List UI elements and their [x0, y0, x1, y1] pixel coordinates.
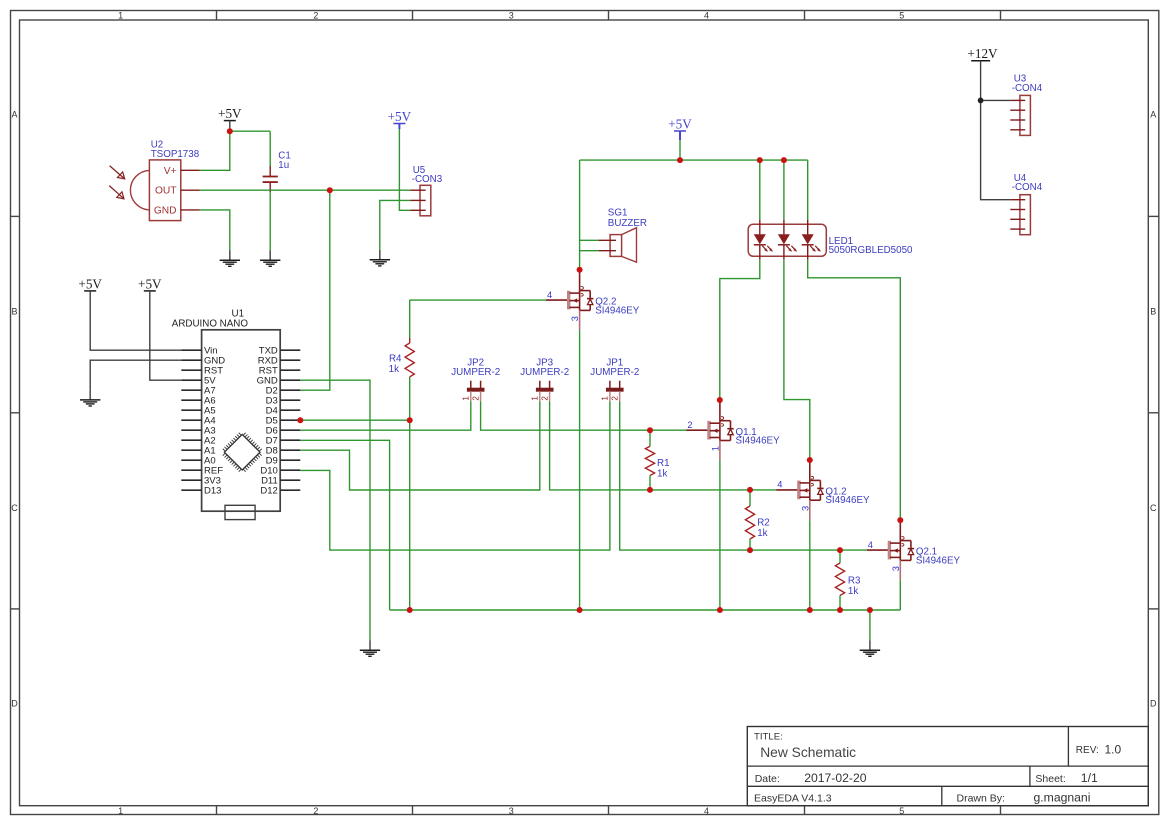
svg-text:D: D	[11, 699, 18, 709]
svg-text:g.magnani: g.magnani	[1034, 791, 1091, 805]
junction R1 top	[647, 427, 653, 433]
svg-text:+5V: +5V	[668, 116, 692, 131]
wire GND right	[300, 380, 370, 640]
capacitor C1	[263, 166, 278, 192]
wire buzzer pin2	[580, 250, 599, 252]
svg-text:1/1: 1/1	[1081, 771, 1098, 785]
junction +5V/V+/C1	[227, 128, 233, 134]
wire +12V down	[980, 61, 982, 101]
wire Q1.1 source to bus	[719, 461, 721, 611]
junction Q1.2 drain	[807, 457, 813, 463]
svg-text:C: C	[11, 503, 18, 513]
power flag +12V	[967, 46, 998, 61]
junction bus/ground	[867, 607, 873, 613]
svg-text:1u: 1u	[278, 160, 289, 171]
junction bus/R4	[407, 607, 413, 613]
wire U5.2 to gnd	[380, 200, 411, 249]
svg-text:4: 4	[777, 480, 782, 490]
svg-text:JUMPER-2: JUMPER-2	[590, 367, 639, 378]
svg-text:3: 3	[509, 11, 514, 21]
wire Q2.1 source	[899, 580, 901, 610]
ground (mid)	[360, 640, 380, 656]
junction D5/R4	[407, 417, 413, 423]
svg-text:A: A	[11, 110, 17, 120]
svg-text:R2: R2	[757, 518, 770, 529]
wire +5V to Vin	[90, 291, 181, 350]
svg-text:+5V: +5V	[138, 276, 162, 291]
wire D6 to JP2 pin1	[300, 401, 471, 430]
junction R2 top	[747, 487, 753, 493]
svg-text:1k: 1k	[848, 586, 858, 597]
svg-text:1: 1	[601, 396, 610, 401]
IC U1 (ARDUINO NANO)	[181, 330, 300, 511]
wire D5 net	[300, 419, 409, 421]
wire LED pin2 top	[783, 160, 785, 220]
wire R3 top stub	[839, 550, 841, 563]
svg-text:R4: R4	[389, 354, 402, 365]
buzzer SG1	[599, 228, 637, 263]
wire OUT net (U2 OUT to U5 pin1)	[200, 189, 411, 191]
ground (U5)	[370, 250, 390, 266]
svg-text:SI4946EY: SI4946EY	[916, 555, 961, 566]
ground (U1 left)	[80, 390, 100, 406]
svg-text:2: 2	[540, 396, 549, 401]
resistor R1	[645, 446, 654, 475]
transistor Q1.2 (SI4946EY)	[776, 460, 823, 520]
wire C1 top vertical	[269, 131, 271, 166]
svg-text:-CON4: -CON4	[1012, 83, 1043, 94]
svg-text:R3: R3	[848, 576, 861, 587]
ground (C1)	[260, 250, 280, 266]
junction R3 top	[837, 547, 843, 553]
U1 usb connector rect	[225, 505, 255, 519]
wire R2 bottom stub	[749, 539, 751, 550]
svg-text:B: B	[1150, 307, 1156, 317]
svg-text:1: 1	[531, 396, 540, 401]
wire R4 bottom	[409, 377, 411, 420]
junction +12V	[978, 98, 984, 104]
svg-text:1: 1	[462, 396, 471, 401]
svg-text:OUT: OUT	[155, 186, 177, 197]
wire LED1.1 to Q1.1	[720, 260, 760, 400]
resistor R3	[835, 563, 844, 596]
wire bus to ground (right)	[869, 610, 871, 640]
svg-text:JUMPER-2: JUMPER-2	[520, 367, 569, 378]
svg-text:1.0: 1.0	[1105, 743, 1122, 757]
svg-text:2: 2	[313, 11, 318, 21]
svg-text:REV:: REV:	[1076, 745, 1099, 756]
connector JP1 (JUMPER-2)	[607, 381, 624, 402]
ground (U2)	[220, 250, 240, 266]
IR arrows	[109, 166, 125, 199]
svg-text:1k: 1k	[757, 528, 767, 539]
svg-text:4: 4	[704, 11, 709, 21]
wire OUT to D2	[300, 190, 330, 390]
wire Q2.2 gate from R4	[410, 299, 546, 301]
svg-text:New Schematic: New Schematic	[760, 745, 856, 760]
connector JP2 (JUMPER-2)	[467, 381, 484, 402]
svg-text:2017-02-20: 2017-02-20	[804, 771, 867, 785]
wire R2 top stub	[749, 490, 751, 506]
wire +5V stub to junction	[229, 121, 231, 132]
wire bottom bus	[390, 609, 901, 611]
power flag +5V (U2/C1)	[218, 106, 242, 121]
svg-text:C: C	[1150, 503, 1157, 513]
svg-text:JUMPER-2: JUMPER-2	[451, 367, 500, 378]
power flag +5V (blue, rail)	[668, 116, 692, 140]
svg-text:D12: D12	[260, 486, 277, 497]
svg-text:1k: 1k	[389, 364, 399, 375]
transistor Q2.2 (SI4946EY)	[546, 270, 593, 331]
wire LED pin1 top	[759, 160, 761, 220]
svg-text:5050RGBLED5050: 5050RGBLED5050	[829, 245, 913, 256]
svg-text:D13: D13	[204, 486, 221, 497]
wire +5V to U2 V+	[200, 131, 230, 170]
svg-text:1: 1	[118, 11, 123, 21]
wire +5V to C1 top	[230, 130, 270, 132]
svg-text:4: 4	[704, 806, 709, 816]
transistor Q1.1 (SI4946EY)	[686, 400, 733, 461]
svg-text:-CON4: -CON4	[1012, 182, 1043, 193]
power flag +5V (blue, U5)	[388, 109, 412, 129]
svg-text:TITLE:: TITLE:	[754, 731, 783, 742]
wire +12V to U4.1	[981, 100, 1011, 199]
wire +5V to 5V pin	[150, 291, 182, 380]
wire +5V flag to rail	[679, 140, 681, 160]
junction Q2.2 drain	[577, 267, 583, 273]
wire R1 bottom stub	[649, 476, 651, 490]
svg-text:A: A	[1150, 110, 1156, 120]
svg-text:-CON3: -CON3	[412, 174, 443, 185]
svg-text:+12V: +12V	[967, 46, 998, 61]
U1 chip diamond symbol	[223, 433, 262, 472]
resistor R4	[405, 343, 414, 377]
wire U1 GND left	[90, 360, 181, 390]
transistor Q2.1 (SI4946EY)	[867, 520, 914, 580]
svg-text:EasyEDA V4.1.3: EasyEDA V4.1.3	[754, 793, 832, 805]
junction bus/Q2.2	[577, 607, 583, 613]
junction Q2.1 drain	[897, 517, 903, 523]
wire D8 to JP3 pin1	[300, 401, 540, 490]
svg-text:2: 2	[471, 396, 480, 401]
svg-text:1: 1	[118, 806, 123, 816]
wire D7 down	[300, 440, 389, 610]
svg-text:4: 4	[547, 290, 552, 300]
wire rail down to buzzer/Q2.2	[579, 160, 581, 270]
junction bus/Q1.2	[807, 607, 813, 613]
junction rail/LED1.1	[757, 157, 763, 163]
wire +5V rail	[580, 159, 808, 161]
svg-text:Date:: Date:	[755, 773, 780, 785]
svg-text:+5V: +5V	[388, 109, 412, 124]
wire U2 GND	[200, 210, 230, 250]
wire Q1.2 source to bus	[809, 520, 811, 610]
IC U2 (TSOP1738 IR receiver)	[130, 160, 199, 221]
wire buzzer pin1	[580, 239, 599, 241]
wire JP1.2 gate net	[620, 401, 867, 550]
ground (right)	[860, 640, 880, 656]
svg-text:3: 3	[509, 806, 514, 816]
svg-text:SI4946EY: SI4946EY	[825, 495, 870, 506]
svg-text:Drawn By:: Drawn By:	[957, 793, 1005, 805]
wire to U3.1	[981, 99, 1011, 101]
svg-text:1: 1	[710, 446, 720, 451]
svg-text:3: 3	[800, 506, 810, 511]
svg-text:SI4946EY: SI4946EY	[736, 435, 781, 446]
power flag +5V (5V pin)	[138, 276, 162, 291]
junction OUT/D2	[327, 187, 333, 193]
svg-text:2: 2	[687, 420, 692, 430]
junction Q1.1 drain	[717, 397, 723, 403]
svg-text:B: B	[11, 307, 17, 317]
svg-text:GND: GND	[154, 205, 177, 216]
wire JP2.2 gate net	[481, 401, 687, 430]
wire LED1.3 to Q2.1	[808, 260, 901, 520]
junction bus/R3	[837, 607, 843, 613]
svg-text:5: 5	[899, 11, 904, 21]
svg-text:4: 4	[868, 540, 873, 550]
wire D5/R4 to bus	[409, 420, 411, 610]
junction R1 bottom	[647, 487, 653, 493]
svg-text:2: 2	[611, 396, 620, 401]
connector U5 (-CON3)	[410, 185, 431, 216]
svg-text:Sheet:: Sheet:	[1035, 773, 1065, 785]
power flag +5V (Vin)	[78, 276, 102, 291]
title block	[747, 727, 1148, 806]
connector JP3 (JUMPER-2)	[536, 381, 553, 402]
LED LED1 (5050RGBLED5050)	[748, 220, 826, 260]
svg-text:D: D	[1150, 699, 1157, 709]
wire D10 to JP1 pin1	[300, 401, 610, 550]
svg-text:R1: R1	[657, 458, 670, 469]
wire R1 top stub	[649, 430, 651, 446]
junction bus/Q1.1	[717, 607, 723, 613]
svg-text:1k: 1k	[657, 469, 667, 480]
svg-text:V+: V+	[164, 166, 177, 177]
svg-text:3: 3	[891, 566, 901, 571]
svg-text:5: 5	[899, 806, 904, 816]
wire rail corner to LED1.3	[807, 160, 809, 220]
wire R4 top	[409, 300, 411, 338]
wire JP3.2 gate net	[550, 401, 777, 490]
connector U4 (-CON4)	[1010, 195, 1030, 235]
junction R2 bottom	[747, 547, 753, 553]
svg-text:ARDUINO NANO: ARDUINO NANO	[172, 318, 249, 329]
connector U3 (-CON4)	[1010, 95, 1030, 135]
wire +5V to U5.3	[399, 129, 410, 210]
svg-text:TSOP1738: TSOP1738	[151, 149, 200, 160]
svg-text:2: 2	[313, 806, 318, 816]
wire R3 bottom stub	[839, 596, 841, 611]
wire LED1.2 to Q1.2	[784, 260, 810, 460]
junction D5 pin	[297, 417, 303, 423]
wire Q2.2 source to bus	[579, 330, 581, 610]
wire C1 bottom to ground	[269, 192, 271, 250]
svg-text:+5V: +5V	[218, 106, 242, 121]
svg-text:SI4946EY: SI4946EY	[595, 305, 640, 316]
junction +5V rail	[677, 157, 683, 163]
svg-text:+5V: +5V	[78, 276, 102, 291]
svg-text:BUZZER: BUZZER	[608, 218, 647, 229]
junction rail/LED1.2	[781, 157, 787, 163]
resistor R2	[745, 506, 754, 539]
svg-text:3: 3	[570, 316, 580, 321]
